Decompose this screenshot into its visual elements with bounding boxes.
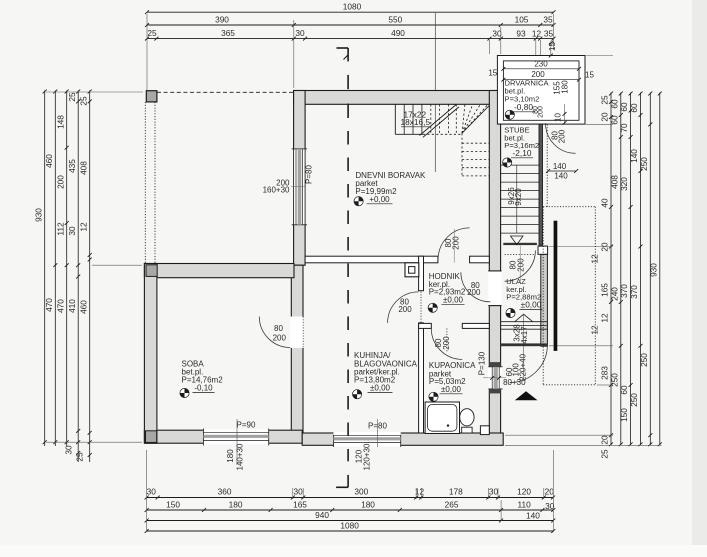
svg-text:70: 70 (619, 123, 629, 133)
svg-text:140: 140 (554, 172, 568, 181)
svg-text:±0,00: ±0,00 (443, 295, 464, 304)
svg-text:25: 25 (600, 449, 610, 459)
svg-text:250: 250 (639, 157, 649, 171)
svg-text:435: 435 (67, 159, 77, 173)
svg-text:460: 460 (44, 154, 54, 168)
svg-text:60: 60 (619, 385, 629, 395)
svg-text:265: 265 (445, 499, 459, 509)
svg-text:60: 60 (609, 115, 619, 125)
svg-text:25: 25 (75, 452, 85, 462)
svg-text:12: 12 (600, 313, 610, 323)
svg-text:120: 120 (517, 487, 531, 497)
svg-text:140: 140 (526, 511, 540, 521)
svg-text:490: 490 (391, 28, 405, 38)
svg-text:±0,00: ±0,00 (441, 385, 462, 394)
svg-text:200: 200 (452, 236, 461, 250)
svg-text:60: 60 (629, 103, 639, 113)
svg-text:165: 165 (600, 283, 610, 297)
svg-text:25: 25 (600, 95, 610, 105)
svg-text:12: 12 (590, 254, 600, 264)
svg-text:930: 930 (649, 263, 659, 277)
svg-text:408: 408 (78, 161, 88, 175)
svg-text:30: 30 (147, 487, 157, 497)
svg-text:35: 35 (543, 14, 553, 24)
svg-text:140: 140 (629, 149, 639, 163)
svg-text:320: 320 (619, 177, 629, 191)
svg-text:P=90: P=90 (237, 420, 256, 429)
svg-text:110: 110 (517, 499, 531, 509)
svg-text:470: 470 (44, 298, 54, 312)
svg-text:365: 365 (221, 28, 235, 38)
svg-text:1080: 1080 (340, 521, 359, 531)
svg-text:283: 283 (600, 366, 610, 380)
svg-text:80: 80 (274, 324, 283, 333)
svg-text:370: 370 (619, 284, 629, 298)
svg-text:-0,80: -0,80 (514, 102, 533, 112)
svg-text:15: 15 (488, 69, 497, 78)
svg-text:105: 105 (515, 14, 529, 24)
svg-text:300: 300 (354, 487, 368, 497)
svg-text:150: 150 (619, 408, 629, 422)
svg-text:200: 200 (273, 334, 287, 343)
svg-text:550: 550 (388, 14, 402, 24)
svg-text:40: 40 (600, 198, 610, 208)
svg-text:220+40: 220+40 (518, 353, 527, 380)
svg-text:410: 410 (67, 299, 77, 313)
svg-text:20: 20 (600, 112, 610, 122)
svg-text:470: 470 (55, 299, 65, 313)
svg-text:390: 390 (215, 14, 229, 24)
svg-text:200: 200 (442, 336, 451, 350)
svg-text:35: 35 (544, 29, 554, 39)
svg-text:250: 250 (629, 393, 639, 407)
svg-text:408: 408 (609, 175, 619, 189)
svg-text:250: 250 (639, 353, 649, 367)
svg-text:60: 60 (619, 102, 629, 112)
svg-text:9x20: 9x20 (514, 188, 523, 206)
svg-text:P=80: P=80 (305, 164, 314, 183)
svg-text:230: 230 (534, 59, 548, 68)
svg-text:200: 200 (398, 305, 412, 314)
svg-text:30: 30 (293, 487, 303, 497)
svg-text:12: 12 (78, 222, 88, 232)
svg-text:25: 25 (78, 96, 88, 106)
svg-text:360: 360 (218, 487, 232, 497)
svg-text:180: 180 (226, 449, 235, 463)
svg-text:20: 20 (600, 435, 610, 445)
svg-text:200: 200 (467, 288, 481, 297)
svg-text:12: 12 (532, 29, 542, 39)
svg-text:180: 180 (361, 499, 375, 509)
svg-text:30: 30 (489, 487, 499, 497)
svg-text:200: 200 (557, 129, 566, 143)
svg-text:P=130: P=130 (477, 351, 486, 375)
svg-text:148: 148 (55, 115, 65, 129)
svg-text:20: 20 (600, 242, 610, 252)
svg-text:-2,10: -2,10 (513, 148, 532, 158)
svg-text:240: 240 (609, 287, 619, 301)
svg-text:-0,10: -0,10 (194, 384, 213, 393)
svg-text:60: 60 (609, 99, 619, 109)
svg-text:4x17: 4x17 (520, 326, 529, 344)
svg-text:+0,00: +0,00 (369, 195, 390, 204)
svg-text:178: 178 (449, 487, 463, 497)
svg-text:±0,00: ±0,00 (370, 384, 391, 393)
svg-text:25: 25 (67, 92, 77, 102)
svg-text:120+30: 120+30 (363, 443, 372, 470)
svg-text:940: 940 (315, 510, 329, 520)
svg-text:150: 150 (166, 499, 180, 509)
svg-text:15: 15 (585, 71, 594, 80)
svg-text:200: 200 (55, 175, 65, 189)
svg-text:20: 20 (545, 487, 555, 497)
svg-text:140: 140 (553, 162, 567, 171)
svg-text:18x16,5: 18x16,5 (401, 117, 431, 127)
svg-text:93: 93 (516, 29, 526, 39)
svg-text:160+30: 160+30 (263, 186, 290, 195)
svg-text:200: 200 (516, 258, 525, 272)
svg-text:140+30: 140+30 (236, 443, 245, 470)
svg-text:930: 930 (34, 208, 44, 222)
svg-text:1080: 1080 (343, 2, 362, 12)
svg-text:12: 12 (590, 325, 600, 335)
svg-text:165: 165 (293, 499, 307, 509)
svg-text:±0,00: ±0,00 (521, 299, 542, 309)
svg-text:200: 200 (537, 106, 544, 118)
svg-text:180: 180 (561, 80, 570, 94)
svg-text:112: 112 (55, 222, 65, 236)
svg-text:25: 25 (147, 28, 157, 38)
svg-text:15: 15 (548, 42, 557, 51)
svg-text:370: 370 (629, 285, 639, 299)
svg-text:10: 10 (554, 113, 563, 122)
svg-text:460: 460 (78, 300, 88, 314)
svg-text:180: 180 (229, 499, 243, 509)
svg-text:30: 30 (295, 28, 305, 38)
svg-text:30: 30 (64, 445, 74, 455)
svg-text:30: 30 (67, 226, 77, 236)
